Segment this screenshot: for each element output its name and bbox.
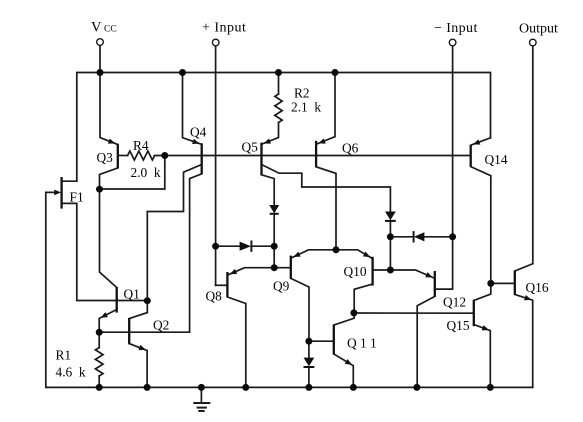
svg-text:+ Input: + Input xyxy=(202,21,246,36)
svg-text:Q4: Q4 xyxy=(190,125,207,140)
svg-text:R1: R1 xyxy=(56,348,72,363)
svg-text:Q5: Q5 xyxy=(242,140,259,155)
svg-text:R4: R4 xyxy=(133,138,149,153)
svg-text:Q2: Q2 xyxy=(153,318,169,333)
svg-text:2.0 k: 2.0 k xyxy=(131,165,161,180)
svg-text:Q1: Q1 xyxy=(124,287,140,302)
svg-text:Q12: Q12 xyxy=(443,295,466,310)
svg-text:4.6 k: 4.6 k xyxy=(56,365,86,380)
svg-text:Q 1 1: Q 1 1 xyxy=(347,336,377,351)
svg-text:2.1 k: 2.1 k xyxy=(291,100,321,115)
svg-text:Q3: Q3 xyxy=(97,150,114,165)
svg-text:− Input: − Input xyxy=(434,21,478,36)
svg-text:Q14: Q14 xyxy=(485,152,508,167)
svg-text:R2: R2 xyxy=(294,86,310,101)
svg-text:V: V xyxy=(91,20,102,36)
svg-text:Q10: Q10 xyxy=(344,264,367,279)
svg-text:Output: Output xyxy=(519,22,558,37)
svg-text:Q16: Q16 xyxy=(526,280,549,295)
svg-text:F1: F1 xyxy=(70,190,84,205)
svg-text:CC: CC xyxy=(104,25,117,35)
svg-text:Q15: Q15 xyxy=(447,318,470,333)
svg-text:Q6: Q6 xyxy=(342,141,359,156)
svg-text:Q9: Q9 xyxy=(273,279,290,294)
svg-text:Q8: Q8 xyxy=(206,289,223,304)
